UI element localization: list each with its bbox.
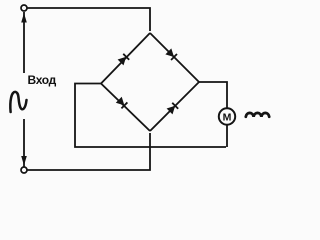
wire left input lower segment (23, 119, 25, 167)
wire: left corner (minus) down and across bottom return (75, 84, 226, 148)
arrowhead down at bottom terminal (21, 156, 27, 166)
AC sine symbol (10, 92, 26, 112)
arrowhead up at top terminal (21, 13, 27, 23)
wire: motor bottom to return line (226, 125, 228, 147)
diode VD2 (top corner -> right corner) (165, 48, 177, 60)
motor M1 (219, 108, 235, 124)
wire: left corner to top corner (101, 33, 150, 84)
svg-text:Вход: Вход (28, 73, 57, 87)
wire: left corner to bottom corner (101, 84, 150, 132)
wire bottom: terminal to bottom corner of bridge (27, 133, 150, 170)
diode VD4 (bottom corner -> right corner) (167, 103, 179, 115)
terminal top-left (21, 5, 27, 11)
wire: right corner (plus) to motor top (199, 82, 227, 108)
wire left input upper segment (23, 12, 25, 73)
svg-text:M: M (223, 112, 232, 124)
wire top: terminal to top corner of bridge (27, 8, 150, 31)
terminal bottom-left (21, 167, 27, 173)
wire: bottom corner to right corner (150, 82, 199, 131)
motor winding squiggle (246, 113, 269, 117)
diode VD3 (left corner -> bottom corner) (116, 97, 128, 109)
wire: top corner to right corner (150, 33, 199, 82)
diode VD1 (left corner -> top corner) (118, 54, 130, 66)
